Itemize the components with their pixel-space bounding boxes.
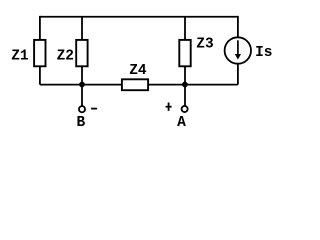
svg-text:Z2: Z2 <box>57 49 74 65</box>
wire Z1 branch <box>39 16 41 85</box>
terminal B (open circle) <box>79 106 85 112</box>
wire Is branch <box>237 16 239 85</box>
minus sign at terminal B <box>91 108 97 110</box>
current source Is <box>225 37 251 63</box>
svg-text:B: B <box>77 115 86 131</box>
resistor Z2 <box>76 40 87 66</box>
svg-text:Z4: Z4 <box>129 63 147 79</box>
resistor Z3 <box>179 40 190 66</box>
svg-text:Is: Is <box>255 45 272 61</box>
junction node at B branch <box>79 82 85 88</box>
terminal A (open circle) <box>182 106 188 112</box>
junction node at A branch <box>182 82 188 88</box>
resistor Z4 <box>122 79 148 90</box>
svg-text:Z1: Z1 <box>11 49 29 65</box>
wire Z3 / terminal A branch <box>184 17 186 106</box>
plus sign at terminal A <box>166 103 172 111</box>
wire top bus <box>40 16 238 18</box>
resistor Z1 <box>34 40 45 66</box>
svg-text:A: A <box>177 115 186 131</box>
svg-text:Z3: Z3 <box>196 36 213 52</box>
wire Z2 / terminal B branch <box>81 17 83 106</box>
wire bottom bus <box>40 84 238 86</box>
